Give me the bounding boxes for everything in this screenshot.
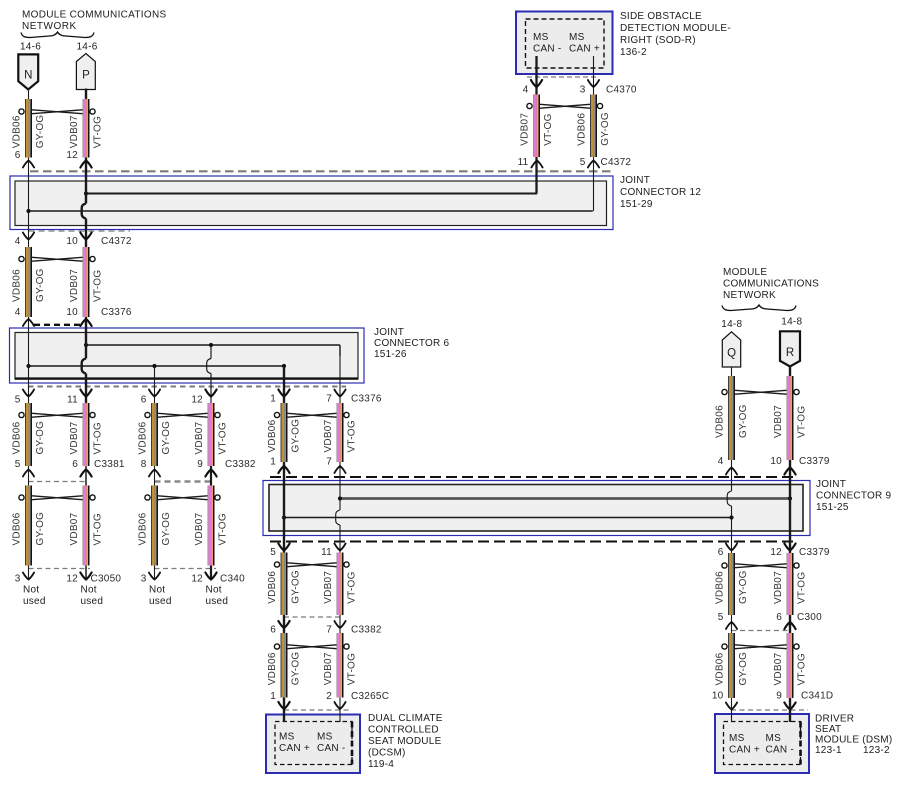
connector arrow up at x=731.5: [726, 468, 737, 475]
connector arrow up at x=790: [784, 468, 795, 475]
junction: pin7 wire to JC9 upper bus: [338, 496, 342, 500]
junction: VDB07 wire to JC6 upper bus: [84, 343, 88, 347]
wire band VDB06 GY-OG (JC6 pin6 to C3382): [138, 403, 173, 466]
svg-text:VDB06: VDB06: [12, 421, 23, 454]
svg-text:GY-OG: GY-OG: [161, 512, 172, 546]
svg-text:151-26: 151-26: [374, 349, 407, 360]
svg-text:C340: C340: [220, 574, 245, 585]
svg-text:7: 7: [326, 625, 332, 636]
twisted pair symbol (row1 pair2): [145, 412, 220, 417]
wire: VDB07 bold C3382 to C340 not-used (x=211): [210, 462, 212, 580]
wire: P stem + VDB07 bold through JC12 and JC6 (x=86): [82, 89, 86, 467]
not used terminal label: [206, 585, 229, 608]
connector C4372 label: [101, 236, 132, 247]
pin 5 label: [270, 547, 276, 558]
pin 8 label: [141, 459, 147, 470]
connector boundary (dashed, below JC6): [28, 386, 346, 388]
svg-text:14-8: 14-8: [721, 319, 742, 330]
pin 12 label: [770, 547, 782, 558]
twisted pair symbol (row2 pair1): [19, 495, 95, 500]
pin 5 label: [15, 459, 21, 470]
pin 4 label: [718, 456, 724, 467]
connector arrow down at x=731.5: [726, 703, 737, 710]
svg-text:123-1: 123-1: [815, 745, 842, 756]
svg-text:VDB06: VDB06: [577, 113, 588, 146]
svg-text:Not: Not: [149, 585, 165, 596]
svg-text:VDB06: VDB06: [267, 652, 278, 685]
junction: pin1 wire to JC9 lower bus: [282, 515, 286, 519]
connector arrow down at x=340: [334, 621, 345, 628]
svg-text:VDB06: VDB06: [138, 421, 149, 454]
svg-text:VDB07: VDB07: [323, 571, 334, 604]
svg-text:7: 7: [326, 457, 332, 468]
svg-text:12: 12: [66, 574, 78, 585]
svg-text:GY-OG: GY-OG: [291, 652, 302, 686]
connector arrow down at x=28.5: [23, 233, 34, 240]
pin 2 label: [326, 691, 332, 702]
JC6 name label: [374, 327, 450, 360]
wire: VDB06 JC6 to C340 not-used (x=154.5): [154, 366, 156, 580]
svg-text:JOINT: JOINT: [620, 175, 650, 186]
pin 11 label: [321, 547, 332, 558]
svg-text:CAN -: CAN -: [766, 745, 794, 756]
svg-text:1: 1: [270, 691, 276, 702]
svg-text:CAN -: CAN -: [533, 44, 561, 55]
connector C340 label: [220, 574, 245, 585]
pin 9 label: [776, 691, 782, 702]
pin 3 label: [15, 574, 21, 585]
svg-text:GY-OG: GY-OG: [35, 421, 46, 455]
svg-text:VT-OG: VT-OG: [93, 422, 104, 454]
wire band VDB06 GY-OG (C3382 to C3265C left): [267, 633, 302, 698]
svg-text:CAN +: CAN +: [279, 743, 310, 754]
connector arrow up at x=154.5: [149, 470, 160, 477]
connector C4372 boundary segment (dashed, below JC12): [29, 230, 131, 232]
not used terminal label: [149, 585, 172, 608]
svg-text:5: 5: [15, 459, 21, 470]
wire band VDB07 VT-OG (C3382 to C340 right): [194, 486, 229, 566]
wire: VDB07 C3381 to C3050 not-used (x=86): [85, 466, 87, 580]
connector arrow down at x=86: [80, 573, 91, 580]
junction: N-side wire to JC6 lower bus: [26, 364, 30, 368]
svg-text:5: 5: [580, 157, 586, 168]
not used terminal label: [81, 585, 104, 608]
pin 4 label: [15, 236, 21, 247]
pin 6 label: [776, 612, 782, 623]
svg-text:11: 11: [321, 547, 332, 558]
wire band VDB07 VT-OG (C4372 to C3376 right): [69, 247, 104, 317]
connector C3382 boundary (bold dashed, left pair): [155, 480, 213, 482]
svg-text:VT-OG: VT-OG: [543, 113, 554, 145]
pin 7 label: [326, 457, 332, 468]
svg-text:11: 11: [67, 395, 78, 406]
svg-text:1: 1: [270, 457, 276, 468]
wire: VDB07 JC6 pin12 to row1 (x=211): [207, 345, 211, 462]
module DRIVER SEAT MODULE (DSM) box: [715, 714, 809, 773]
svg-text:VDB06: VDB06: [267, 419, 278, 452]
junction: Q wire to JC9 lower bus: [729, 515, 733, 519]
svg-text:6: 6: [718, 547, 724, 558]
svg-text:4: 4: [523, 85, 529, 96]
connector arrow up at x=211: [205, 470, 216, 477]
svg-text:8: 8: [141, 459, 147, 470]
connector C3379 label: [799, 547, 830, 558]
svg-text:GY-OG: GY-OG: [291, 419, 302, 453]
pin 5 label: [15, 395, 21, 406]
module DSM name label: [815, 714, 892, 757]
connector arrow up at x=28.5: [23, 470, 34, 477]
svg-text:VDB07: VDB07: [194, 512, 205, 545]
svg-text:2: 2: [326, 691, 332, 702]
twisted pair symbol (row2 pair2): [145, 495, 220, 500]
svg-text:GY-OG: GY-OG: [738, 570, 749, 604]
connector C4370 label: [606, 85, 637, 96]
svg-text:DETECTION MODULE-: DETECTION MODULE-: [620, 23, 731, 34]
svg-text:VDB07: VDB07: [773, 652, 784, 685]
svg-text:VDB07: VDB07: [520, 113, 531, 146]
connector C3379 label: [799, 456, 830, 467]
svg-text:151-25: 151-25: [816, 502, 849, 513]
connector C3265C label: [351, 691, 389, 702]
svg-text:used: used: [23, 596, 46, 607]
pin 7 label: [326, 394, 332, 405]
pin 11 label: [67, 395, 78, 406]
wire band VDB07 VT-OG (SOD-R CAN- to C4372): [520, 95, 555, 158]
svg-text:GY-OG: GY-OG: [35, 268, 46, 302]
wire band VDB06 GY-OG (C3382 to C340 left): [138, 486, 173, 566]
pin 6 label: [141, 395, 147, 406]
svg-text:VDB07: VDB07: [323, 652, 334, 685]
svg-text:7: 7: [326, 394, 332, 405]
svg-text:9: 9: [197, 459, 203, 470]
wire band VDB07 VT-OG (C300 to C341D right): [773, 633, 808, 698]
connector C3381 boundary (dashed): [29, 481, 88, 483]
connector arrow up at x=790: [784, 622, 795, 629]
svg-text:DUAL CLIMATE: DUAL CLIMATE: [368, 713, 443, 724]
connector C3381 label: [94, 459, 125, 470]
pin 10 label: [712, 691, 724, 702]
wire band VDB06 GY-OG (JC9 pin6 to C300): [715, 553, 750, 615]
svg-text:used: used: [81, 596, 104, 607]
svg-text:CAN -: CAN -: [317, 743, 345, 754]
pin 3 label: [141, 574, 147, 585]
page ref 14-8 (connector R): [781, 317, 802, 328]
svg-text:151-29: 151-29: [620, 199, 653, 210]
svg-text:MS: MS: [279, 732, 295, 743]
svg-text:3: 3: [580, 85, 586, 96]
svg-text:VDB07: VDB07: [69, 421, 80, 454]
page ref 14-8 (connector Q): [721, 319, 742, 330]
svg-text:C3050: C3050: [91, 574, 122, 585]
svg-text:VDB07: VDB07: [773, 405, 784, 438]
pin 6 label: [15, 150, 21, 161]
pin 6 label: [718, 547, 724, 558]
svg-text:VT-OG: VT-OG: [347, 420, 358, 452]
connector C3265C boundary (dashed, above DCSM): [284, 709, 352, 711]
JC9 upper bus wire: [340, 497, 790, 500]
svg-text:4: 4: [15, 307, 21, 318]
pin 1 label: [270, 457, 276, 468]
JC9 name label: [816, 479, 892, 513]
wire band VDB06 GY-OG (SOD-R CAN+ to C4372): [577, 95, 612, 158]
svg-text:VT-OG: VT-OG: [218, 422, 229, 454]
pin 10 label: [770, 456, 782, 467]
svg-text:VDB07: VDB07: [194, 421, 205, 454]
page ref 14-6 (connector N): [20, 42, 41, 53]
svg-text:VDB06: VDB06: [715, 652, 726, 685]
svg-text:C4370: C4370: [606, 85, 637, 96]
connector arrow down at x=154.5: [149, 573, 160, 580]
svg-text:4: 4: [718, 456, 724, 467]
svg-text:5: 5: [15, 395, 21, 406]
twisted pair symbol (top left): [19, 109, 95, 114]
wire band VDB07 VT-OG (C3382 to C3265C right): [323, 633, 358, 698]
wire: R stem VDB07 bold to JC9 to DSM (x=790): [789, 367, 791, 723]
pin 10 label: [66, 236, 78, 247]
wire band VDB06 GY-OG (C3381 to C3050 left): [12, 486, 47, 566]
svg-text:VDB07: VDB07: [323, 419, 334, 452]
svg-text:C4372: C4372: [601, 157, 632, 168]
junction: pin1 bold wire to JC6 lower bus: [282, 364, 286, 368]
wire band VDB07 VT-OG (R to C3379): [773, 376, 808, 460]
twisted pair symbol (row1 pair3): [274, 412, 349, 417]
svg-text:1: 1: [270, 394, 276, 405]
svg-text:C3376: C3376: [351, 394, 382, 405]
wire band VDB07 VT-OG (C3381 to C3050 right): [69, 486, 104, 566]
svg-text:SIDE OBSTACLE: SIDE OBSTACLE: [620, 11, 702, 22]
connector C300 boundary (dashed): [732, 630, 791, 632]
svg-text:6: 6: [141, 395, 147, 406]
svg-text:6: 6: [72, 459, 78, 470]
pin 12 label: [191, 395, 203, 406]
svg-text:12: 12: [191, 395, 203, 406]
pin 5 label: [718, 612, 724, 623]
connector arrow down at x=593.5: [588, 80, 599, 87]
connector arrow down at x=340: [334, 702, 345, 709]
svg-text:VT-OG: VT-OG: [347, 571, 358, 603]
wire band VDB06 GY-OG (C4372 to C3376 left): [12, 247, 47, 317]
svg-text:VDB07: VDB07: [773, 571, 784, 604]
svg-text:GY-OG: GY-OG: [291, 570, 302, 604]
svg-text:GY-OG: GY-OG: [600, 112, 611, 146]
connector C341D boundary (dashed, above DSM): [731, 709, 808, 711]
svg-text:MS: MS: [766, 733, 782, 744]
connector arrow down at x=28.5: [23, 573, 34, 580]
connector arrow down at x=284: [278, 621, 289, 628]
connector arrow up at x=731.5: [726, 622, 737, 629]
connector C3376 label: [351, 394, 382, 405]
svg-text:6: 6: [776, 612, 782, 623]
svg-text:Q: Q: [727, 348, 736, 360]
svg-text:C300: C300: [797, 612, 822, 623]
module SOD-R name label: [620, 11, 731, 58]
svg-text:NETWORK: NETWORK: [22, 21, 77, 32]
svg-text:R: R: [786, 347, 795, 359]
brace under left network label: [21, 32, 94, 38]
svg-text:C3382: C3382: [351, 625, 382, 636]
wire: Q stem VDB06 to JC9 to DSM (x=731.5): [727, 367, 731, 722]
twisted pair symbol (C4372-C3376): [19, 256, 95, 261]
pin 10 label: [66, 307, 78, 318]
svg-text:(DCSM): (DCSM): [368, 748, 406, 759]
wire: SOD-R MS CAN- stem VDB07 bold to JC12 upper bus (x=536.5): [535, 56, 537, 194]
wire: VDB06 bold JC6 pin1 to JC9 to DCSM (x=284): [283, 366, 285, 722]
junction: R wire to JC9 upper bus: [788, 496, 792, 500]
svg-text:VDB06: VDB06: [12, 269, 23, 302]
wire band VDB07 VT-OG (P to C4372): [69, 99, 104, 158]
svg-text:MS: MS: [729, 733, 745, 744]
svg-text:VT-OG: VT-OG: [93, 116, 104, 148]
svg-text:JOINT: JOINT: [374, 327, 404, 338]
svg-text:VT-OG: VT-OG: [218, 513, 229, 545]
module DCSM name label: [368, 713, 443, 770]
svg-text:C3379: C3379: [799, 456, 830, 467]
pin 11 label: [518, 157, 529, 168]
pin 6 label: [270, 625, 276, 636]
pin 12 label: [66, 150, 78, 161]
svg-text:COMMUNICATIONS: COMMUNICATIONS: [723, 279, 819, 290]
svg-text:C3265C: C3265C: [351, 691, 389, 702]
wire band VDB07 VT-OG (JC9 pin12 to C300): [773, 553, 808, 615]
svg-text:SEAT MODULE: SEAT MODULE: [368, 736, 442, 747]
svg-text:12: 12: [66, 150, 78, 161]
svg-text:10: 10: [66, 236, 78, 247]
svg-text:12: 12: [191, 574, 203, 585]
wire band VDB06 GY-OG (N to C4372): [12, 99, 47, 158]
connector arrow down at x=284: [278, 702, 289, 709]
connector arrow down at x=790: [784, 544, 795, 551]
connector arrow down at x=86: [80, 233, 91, 240]
svg-text:4: 4: [15, 236, 21, 247]
twisted pair symbol (rowB right): [722, 563, 799, 568]
svg-text:MS: MS: [317, 732, 333, 743]
off-page connector N: [18, 54, 38, 89]
svg-text:VT-OG: VT-OG: [347, 653, 358, 685]
JC12 name label: [620, 175, 701, 210]
wire band VDB07 VT-OG (JC9 pin11 to C3382): [323, 553, 358, 616]
svg-text:11: 11: [518, 157, 529, 168]
svg-text:136-2: 136-2: [620, 47, 647, 58]
pin 12 label: [191, 574, 203, 585]
svg-text:CONNECTOR 6: CONNECTOR 6: [374, 338, 450, 349]
connector arrow down at x=211: [205, 390, 216, 397]
svg-text:N: N: [24, 70, 33, 82]
connector arrow down at x=340: [334, 544, 345, 551]
wire: VDB07 JC6 pin7 to JC9 to DCSM (x=340): [336, 356, 340, 722]
svg-text:JOINT: JOINT: [816, 479, 846, 490]
JC12 lower bus wire: [29, 210, 593, 212]
svg-text:Not: Not: [206, 585, 222, 596]
svg-text:CONNECTOR 12: CONNECTOR 12: [620, 187, 701, 198]
svg-text:12: 12: [770, 547, 782, 558]
svg-text:VDB06: VDB06: [12, 512, 23, 545]
svg-text:10: 10: [770, 456, 782, 467]
pin 1 label: [270, 691, 276, 702]
connector arrow up at x=28.5: [23, 161, 34, 168]
svg-text:14-6: 14-6: [20, 42, 41, 53]
svg-text:Not: Not: [81, 585, 97, 596]
svg-text:CAN +: CAN +: [729, 745, 760, 756]
svg-text:CONTROLLED: CONTROLLED: [368, 725, 439, 736]
connector C3050 label: [91, 574, 122, 585]
connector arrow up at x=284: [278, 466, 289, 473]
pin 4 label: [15, 307, 21, 318]
svg-text:VDB07: VDB07: [69, 269, 80, 302]
svg-text:VT-OG: VT-OG: [797, 572, 808, 604]
wire band VDB06 GY-OG (JC9 pin5 to C3382): [267, 553, 302, 616]
svg-text:C4372: C4372: [101, 236, 132, 247]
svg-text:VT-OG: VT-OG: [93, 513, 104, 545]
JC12 upper bus wire: [86, 193, 537, 195]
svg-text:C3382: C3382: [225, 459, 256, 470]
svg-text:VDB07: VDB07: [69, 115, 80, 148]
svg-text:10: 10: [66, 307, 78, 318]
svg-text:VDB07: VDB07: [69, 512, 80, 545]
pin 4 label: [523, 85, 529, 96]
wire: N stem + VDB06 through JC12, JC6, C3381 to C3050 (x=28.5): [28, 90, 30, 580]
pin 6 label: [72, 459, 78, 470]
svg-text:RIGHT (SOD-R): RIGHT (SOD-R): [620, 35, 696, 46]
connector C300 label: [797, 612, 822, 623]
connector C3050 boundary (dashed): [29, 568, 91, 570]
svg-text:5: 5: [718, 612, 724, 623]
svg-text:C3379: C3379: [799, 547, 830, 558]
twisted pair symbol (rowB centre): [274, 562, 349, 567]
off-page connector P: [76, 54, 95, 90]
junction: pin12 wire to JC6 upper bus: [209, 343, 213, 347]
svg-text:C3381: C3381: [94, 459, 125, 470]
svg-text:CONNECTOR 9: CONNECTOR 9: [816, 491, 892, 502]
connector arrow down at x=340: [334, 390, 345, 397]
svg-text:MODULE (DSM): MODULE (DSM): [815, 735, 892, 746]
svg-text:GY-OG: GY-OG: [161, 421, 172, 455]
connector C341D label: [801, 691, 833, 702]
JC9 lower bus wire: [284, 517, 732, 519]
wire: SOD-R MS CAN+ stem VDB06 to JC12 lower bus (x=593.5): [593, 56, 595, 211]
junction: N wire to JC12 lower bus: [26, 209, 30, 213]
pin 5 label: [580, 157, 586, 168]
connector arrow down at x=284: [278, 544, 289, 551]
JC6 upper bus wire: [86, 345, 340, 356]
wire band VDB06 GY-OG (C300 to C341D left): [715, 633, 750, 698]
off-page connector R: [780, 331, 800, 366]
not used terminal label: [23, 585, 46, 608]
connector C4372 boundary (dashed, above JC12): [30, 170, 614, 172]
svg-text:VDB06: VDB06: [715, 571, 726, 604]
JC6 lower bus wire: [29, 365, 285, 367]
svg-text:VT-OG: VT-OG: [797, 653, 808, 685]
net name: MODULE COMMUNICATIONS NETWORK (right): [723, 267, 819, 301]
joint connector 12 box: [10, 176, 613, 230]
svg-text:3: 3: [141, 574, 147, 585]
connector arrow down at x=790: [784, 703, 795, 710]
svg-text:5: 5: [270, 547, 276, 558]
pin 1 label: [270, 394, 276, 405]
svg-text:GY-OG: GY-OG: [35, 115, 46, 149]
wire band VDB06 GY-OG (JC6 pin1 to JC9): [267, 403, 302, 462]
wire band VDB06 GY-OG (JC6 pin5 to C3381): [12, 403, 47, 466]
module SIDE OBSTACLE DETECTION MODULE-RIGHT (SOD-R) box: [516, 12, 613, 75]
svg-text:14-6: 14-6: [77, 42, 98, 53]
connector arrow up at x=28.5: [23, 319, 34, 326]
svg-text:6: 6: [270, 625, 276, 636]
connector C3376 boundary (bold dashed, above JC6): [34, 324, 81, 326]
twisted pair symbol (row1 pair1): [19, 412, 95, 417]
connector arrow down at x=86: [80, 390, 91, 397]
connector C4372 label: [601, 157, 632, 168]
twisted pair symbol (Q/R): [722, 389, 799, 394]
svg-text:MODULE: MODULE: [723, 267, 767, 278]
